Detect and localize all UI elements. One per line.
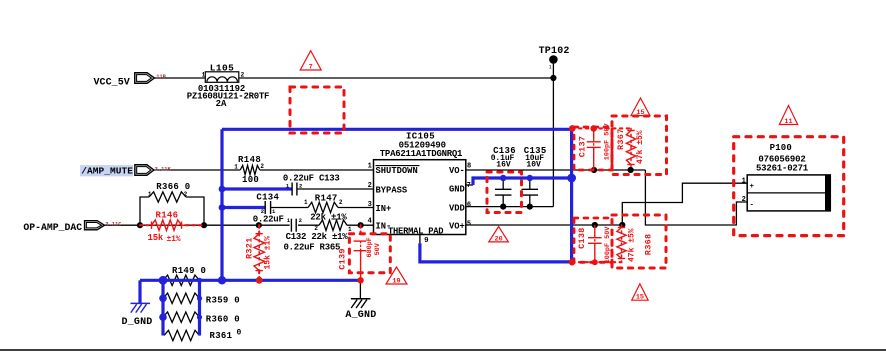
svg-text:1: 1 (549, 65, 552, 71)
svg-text:100pF 50V: 100pF 50V (604, 226, 612, 264)
svg-text:2: 2 (299, 182, 302, 189)
svg-text:BYPASS: BYPASS (376, 186, 408, 196)
svg-text:0: 0 (237, 328, 242, 337)
svg-text:2: 2 (241, 71, 245, 78)
svg-text:47k ±5%: 47k ±5% (636, 130, 645, 164)
svg-text:2A: 2A (216, 99, 227, 109)
svg-text:1: 1 (234, 163, 238, 170)
svg-text:0.22uF C133: 0.22uF C133 (283, 174, 340, 184)
svg-text:C132 22k ±1%: C132 22k ±1% (286, 232, 349, 242)
svg-text:15k: 15k (148, 233, 164, 243)
svg-text:2.11K: 2.11K (155, 166, 172, 172)
svg-text:PZ1608U121-2R0TF: PZ1608U121-2R0TF (187, 91, 269, 101)
svg-text:15: 15 (636, 294, 644, 302)
svg-text:1: 1 (202, 71, 206, 78)
svg-text:1: 1 (348, 226, 352, 233)
svg-text:20: 20 (495, 235, 503, 243)
svg-text:2: 2 (368, 182, 372, 190)
svg-text:R149 0: R149 0 (172, 266, 206, 276)
svg-text:L105: L105 (210, 62, 234, 73)
svg-text:53261-0271: 53261-0271 (756, 163, 809, 173)
svg-text:C138: C138 (577, 227, 587, 249)
svg-text:TP102: TP102 (539, 46, 570, 57)
svg-text:22k ±1%: 22k ±1% (310, 213, 347, 223)
svg-text:R360 0: R360 0 (206, 314, 240, 324)
svg-text:100: 100 (242, 175, 259, 185)
svg-text:47k ±5%: 47k ±5% (628, 228, 637, 262)
svg-text:R321: R321 (245, 237, 255, 259)
svg-text:3: 3 (368, 201, 372, 209)
svg-text:C139: C139 (338, 248, 348, 270)
svg-text:C134: C134 (256, 193, 279, 203)
svg-text:4: 4 (368, 218, 372, 226)
svg-text:10V: 10V (526, 161, 541, 170)
svg-text:16V: 16V (496, 161, 511, 170)
svg-text:2: 2 (260, 163, 264, 170)
svg-text:0.22uF: 0.22uF (253, 214, 284, 224)
svg-text:1: 1 (304, 199, 308, 206)
svg-text:±1%: ±1% (167, 235, 181, 244)
svg-text:/AMP_MUTE: /AMP_MUTE (81, 166, 133, 177)
svg-text:15k ±1%: 15k ±1% (264, 236, 273, 270)
svg-text:11B: 11B (156, 74, 166, 80)
svg-text:9: 9 (424, 237, 429, 245)
svg-text:C137: C137 (577, 136, 587, 158)
svg-text:50V: 50V (374, 242, 382, 255)
svg-text:R148: R148 (238, 155, 261, 165)
svg-text:VO-: VO- (449, 166, 465, 176)
svg-text:2: 2 (314, 225, 318, 232)
svg-text:+: + (750, 183, 755, 191)
svg-text:SHUTDOWN: SHUTDOWN (376, 166, 418, 176)
svg-text:VDD: VDD (449, 204, 465, 214)
svg-text:1: 1 (368, 162, 372, 170)
svg-text:A_GND: A_GND (345, 310, 376, 321)
svg-text:0.22uF R365: 0.22uF R365 (284, 243, 341, 253)
svg-text:R368: R368 (644, 234, 654, 256)
svg-text:GND: GND (449, 184, 465, 194)
svg-text:R361: R361 (210, 331, 233, 341)
svg-text:6: 6 (467, 201, 471, 209)
svg-text:5: 5 (467, 221, 471, 229)
svg-text:2: 2 (299, 217, 302, 224)
svg-text:D_GND: D_GND (122, 317, 153, 328)
svg-text:11: 11 (784, 118, 792, 126)
svg-text:8: 8 (467, 162, 471, 170)
svg-text:R359 0: R359 0 (206, 296, 240, 306)
svg-text:THERMAL PAD: THERMAL PAD (388, 227, 443, 237)
svg-text:R146: R146 (156, 211, 179, 221)
svg-text:IN+: IN+ (376, 204, 392, 214)
svg-text:VO+: VO+ (449, 221, 465, 231)
svg-text:R147: R147 (315, 193, 338, 203)
svg-text:7: 7 (309, 64, 313, 72)
svg-text:OP-AMP_DAC: OP-AMP_DAC (23, 222, 82, 233)
svg-text:2: 2 (742, 196, 746, 204)
svg-text:7: 7 (467, 182, 471, 190)
svg-text:-: - (750, 201, 755, 209)
svg-text:VCC_5V: VCC_5V (94, 77, 130, 88)
svg-text:1: 1 (148, 191, 152, 198)
svg-text:2: 2 (184, 191, 188, 198)
svg-text:TPA6211A1TDGNRQ1: TPA6211A1TDGNRQ1 (380, 149, 463, 159)
svg-text:1: 1 (742, 178, 746, 186)
svg-text:R367: R367 (616, 128, 626, 150)
svg-text:P100: P100 (770, 143, 792, 153)
svg-text:2: 2 (339, 199, 343, 206)
svg-text:19: 19 (392, 278, 400, 286)
svg-text:100pF 50V: 100pF 50V (604, 123, 612, 161)
svg-text:15: 15 (636, 109, 644, 117)
svg-text:2.11C: 2.11C (105, 222, 122, 228)
